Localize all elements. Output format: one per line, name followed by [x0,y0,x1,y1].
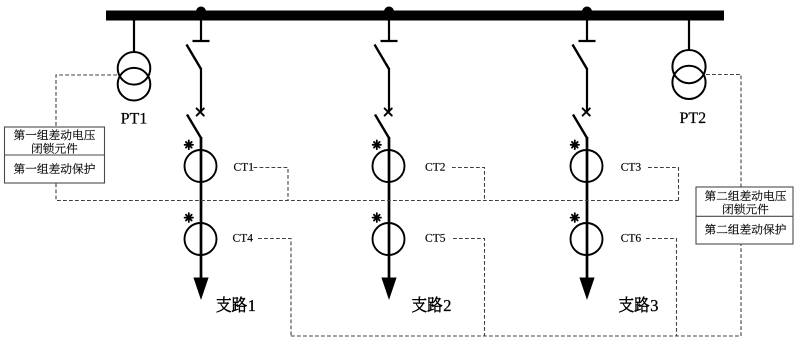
dashed wire PT2 to blocking element box 2 [706,75,741,187]
label CT6 [621,234,641,242]
arrow head branch 2 outgoing [381,278,396,301]
wire branch 3 main feeder [586,137,589,281]
label CT1 [234,163,253,171]
protection box 2 outline [696,187,793,244]
dashed wire CT1 tap [254,168,289,201]
dashed wire CT6 tap [646,239,677,336]
label second group differential protection [705,224,786,235]
disconnector QS1 blade [187,45,202,70]
label CT5 [425,234,445,242]
star mark above CT5 [373,213,381,222]
current transformer CT6 [571,223,603,255]
wire QS2 to breaker [388,68,390,112]
switch blade lower branch 3 [573,115,587,139]
wire busbar drop branch 1 [200,20,202,41]
label branch name zhilu-3 [619,297,658,313]
label first group differential protection [14,163,95,174]
dashed wire CT3 tap [648,168,679,201]
label CT2 [425,163,444,171]
disconnector QS2 blade [375,45,390,70]
wire branch 1 main feeder [200,137,203,281]
protection box 1 outline [5,127,105,183]
node branch-3 junction [582,7,592,17]
label first group differential voltage [14,129,95,140]
label branch name zhilu-2 [412,297,450,313]
wire QS3 to breaker [586,68,588,112]
wire busbar drop branch 2 [388,20,390,41]
star mark above CT1 [185,140,193,149]
current transformer CT5 [373,223,405,255]
dashed wire PT1 to blocking element box 1 [56,75,117,127]
disconnector QS3 blade [573,45,588,70]
label second group differential voltage [705,190,786,201]
label blocking element 1 [32,143,77,154]
node branch-1 junction [196,7,206,17]
label PT1 [121,113,146,124]
label branch name zhilu-1 [217,297,255,313]
wire QS1 to breaker [200,68,202,112]
current transformer CT3 [571,150,603,182]
busbar [106,11,724,21]
arrow head branch 3 outgoing [579,278,594,301]
star mark above CT6 [571,213,579,222]
breaker contact mark x branch 1 [197,108,204,115]
current transformer CT4 [185,223,217,255]
disconnector QS2 fixed contact tick [381,40,398,42]
current transformer CT1 [185,150,217,182]
label CT3 [621,163,641,171]
switch blade lower branch 1 [187,115,201,139]
star mark above CT4 [185,213,193,222]
star mark above CT3 [571,140,579,149]
disconnector QS3 fixed contact tick [579,40,596,42]
dashed wire CT2 tap [452,168,485,201]
star mark above CT2 [373,140,381,149]
dashed wire CT4 tap [258,239,291,336]
switch blade lower branch 2 [375,115,389,139]
breaker contact mark x branch 2 [385,108,392,115]
breaker contact mark x branch 3 [583,108,590,115]
wire busbar drop branch 3 [586,20,588,41]
label PT2 [680,112,705,123]
current transformer CT2 [373,150,405,182]
dashed wire differential bus 2 bottom [291,245,741,337]
wire busbar to PT1 [133,20,135,53]
label CT4 [233,234,253,242]
voltage transformer PT2 [672,50,705,99]
arrow head branch 1 outgoing [193,278,208,301]
voltage transformer PT1 [118,52,151,100]
wire busbar to PT2 [688,20,690,51]
label blocking element 2 [723,204,768,215]
wire branch 2 main feeder [388,137,391,281]
node branch-2 junction [384,7,394,17]
disconnector QS1 fixed contact tick [193,40,210,42]
dashed wire box 1 to differential bus 1 [56,184,679,201]
dashed wire CT5 tap [453,239,485,336]
